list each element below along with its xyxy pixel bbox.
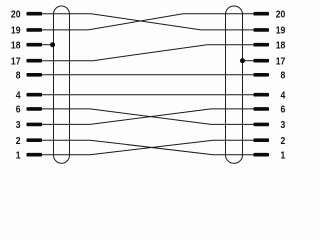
pin stub 6 right: [254, 107, 270, 111]
pin stub 2 left: [27, 138, 43, 142]
svg-text:3: 3: [281, 120, 286, 131]
svg-text:6: 6: [281, 105, 286, 116]
pin stub 18 left: [27, 43, 43, 47]
svg-text:8: 8: [281, 71, 286, 82]
wire L2 to R1: [41, 140, 254, 155]
pin stub 8 left: [27, 73, 43, 77]
pin stub 1 left: [27, 153, 43, 157]
svg-text:1: 1: [16, 150, 21, 161]
wire L19 to R20: [41, 14, 254, 30]
svg-text:2: 2: [281, 136, 286, 147]
pin stub 8 right: [254, 73, 270, 77]
wire R17 to shell junction: [243, 60, 255, 62]
pin stub 3 left: [27, 123, 43, 127]
pin stub 17 left: [27, 59, 43, 63]
svg-text:2: 2: [16, 136, 21, 147]
svg-text:6: 6: [16, 105, 21, 116]
svg-text:17: 17: [11, 56, 21, 67]
pin stub 1 right: [254, 153, 270, 157]
svg-text:18: 18: [11, 40, 21, 51]
pin stub 19 right: [254, 28, 270, 32]
connector J2 (right connector body): [226, 6, 243, 163]
svg-text:19: 19: [276, 26, 286, 37]
pin stub 19 left: [27, 28, 43, 32]
wire L18 to shell junction: [41, 44, 53, 46]
svg-text:20: 20: [276, 9, 286, 20]
svg-text:17: 17: [276, 56, 286, 67]
svg-text:1: 1: [281, 150, 286, 161]
pin stub 6 left: [27, 107, 43, 111]
pin stub 20 right: [254, 12, 270, 16]
wire L6 to R3: [41, 109, 254, 125]
svg-text:4: 4: [16, 90, 21, 101]
wire L4 to R4: [41, 94, 254, 96]
pin stub 3 right: [254, 123, 270, 127]
wire L8 to R8: [41, 74, 254, 76]
wire L17 to R18: [41, 45, 254, 61]
svg-text:3: 3: [16, 120, 21, 131]
svg-text:8: 8: [16, 71, 21, 82]
svg-text:18: 18: [276, 40, 286, 51]
pin stub 4 right: [254, 93, 270, 97]
junction dot on J2 shell (pin 17 right): [240, 58, 245, 63]
pin stub 18 right: [254, 43, 270, 47]
wire L1 to R2: [41, 140, 254, 155]
pin stub 2 right: [254, 138, 270, 142]
svg-text:20: 20: [11, 9, 21, 20]
wire L20 to R19: [41, 14, 254, 30]
connector J1 (left connector body): [54, 6, 70, 163]
pin stub 4 left: [27, 93, 43, 97]
svg-text:19: 19: [11, 26, 21, 37]
svg-text:4: 4: [281, 90, 286, 101]
junction dot on J1 shell (pin 18 left): [50, 42, 55, 47]
pin stub 20 left: [27, 12, 43, 16]
pin stub 17 right: [254, 59, 270, 63]
wire L3 to R6: [41, 109, 254, 125]
